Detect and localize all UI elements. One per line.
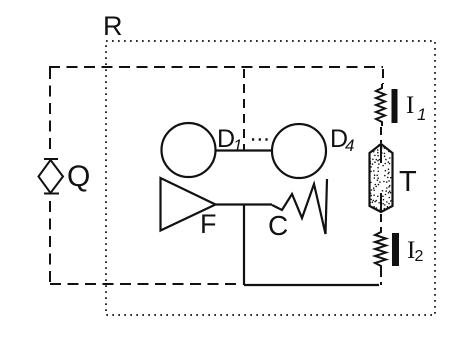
svg-text:4: 4 [345,136,354,155]
svg-text:F: F [200,209,217,239]
svg-text:R: R [103,11,123,41]
svg-text:2: 2 [415,248,424,265]
svg-text:1: 1 [417,105,426,124]
svg-text:I: I [406,92,414,119]
svg-text:Q: Q [67,160,90,193]
svg-text:1: 1 [233,136,242,155]
svg-text:T: T [399,166,417,198]
svg-text:C: C [268,210,288,241]
